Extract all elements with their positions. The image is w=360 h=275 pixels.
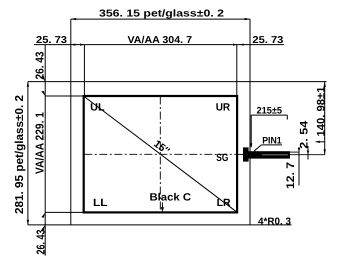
arrows: 281.95 dim line ends bbox=[27, 82, 29, 87]
outer glass bottom edge (with left ext and 4*R0.3 underline ext) bbox=[28, 224, 292, 226]
vertical centerline (dash-dot) bbox=[159, 97, 161, 212]
281.95 dimension line (left, vertical) bbox=[27, 82, 29, 225]
arrow on 2.54 tick bbox=[307, 151, 309, 155]
pin line upper bbox=[290, 151, 299, 153]
svg-text:2. 54: 2. 54 bbox=[299, 120, 311, 149]
svg-text:VA/AA 229. 1: VA/AA 229. 1 bbox=[34, 111, 46, 174]
svg-text:356. 15 pet/glass±0. 2: 356. 15 pet/glass±0. 2 bbox=[99, 9, 225, 20]
2.54 elbow leader bbox=[316, 141, 325, 143]
svg-text:140. 98±1: 140. 98±1 bbox=[315, 87, 327, 137]
svg-text:VA/AA 304. 7: VA/AA 304. 7 bbox=[128, 35, 193, 46]
svg-text:UL: UL bbox=[90, 101, 105, 113]
svg-text:281. 95 pet/glass±0. 2: 281. 95 pet/glass±0. 2 bbox=[14, 95, 26, 214]
connector tail (black bar) bbox=[248, 151, 290, 158]
svg-text:12. 7: 12. 7 bbox=[285, 162, 297, 189]
connector flange (black) bbox=[243, 147, 249, 161]
second dimension line 25.73 / VA 304.7 / 25.73 bbox=[34, 44, 284, 46]
VA bottom edge witness extension left bbox=[45, 211, 83, 213]
arrow on 12.7 tick bbox=[298, 148, 300, 152]
svg-text:25. 73: 25. 73 bbox=[36, 35, 67, 46]
diagonal line UL to LR bbox=[84, 97, 236, 212]
svg-text:LR: LR bbox=[217, 197, 231, 209]
top dimension line 356.15 bbox=[71, 18, 250, 20]
outer glass right edge (extends up to top dim line) bbox=[249, 19, 251, 225]
pin line lower / centerline extension right bbox=[290, 154, 325, 156]
VA left edge witness line up bbox=[83, 45, 85, 96]
horizontal centerline (dash-dot) bbox=[84, 153, 236, 155]
arrows: top dim line 356.15 ends bbox=[71, 18, 76, 20]
VA (viewing area) rectangle, thick border bbox=[84, 96, 237, 212]
white stripe inside tail bbox=[262, 154, 288, 156]
arrows: second dim line at outer/VA edges bbox=[71, 44, 75, 46]
outer glass top edge (with left+right extensions) bbox=[28, 81, 327, 83]
svg-text:UR: UR bbox=[216, 101, 231, 113]
Black C leader line with down arrow to VA bottom edge bbox=[161, 203, 163, 209]
svg-text:26. 43: 26. 43 bbox=[35, 52, 47, 80]
svg-text:25. 73: 25. 73 bbox=[252, 35, 283, 46]
VA right edge witness line up bbox=[236, 45, 238, 96]
svg-text:26. 43: 26. 43 bbox=[35, 230, 47, 255]
arrows: 26.43/229.1 junctions on x=45.2 line bbox=[41, 76, 45, 81]
VA/AA 229.1 + 26.43 dimension line (left, vertical) bbox=[44, 45, 46, 256]
svg-text:4*R0. 3: 4*R0. 3 bbox=[258, 216, 291, 227]
svg-text:SG: SG bbox=[216, 152, 228, 164]
outer glass left edge (extends up to top dim line) bbox=[70, 19, 72, 225]
140.98 dimension line (vertical right) bbox=[324, 82, 326, 155]
svg-text:LL: LL bbox=[93, 197, 108, 209]
svg-text:Black C: Black C bbox=[150, 192, 192, 204]
12.7 dim tick (vertical) bbox=[298, 147, 300, 186]
2.54 dim tick (vertical) bbox=[307, 146, 309, 160]
centerline through connector (VA edge to flange) bbox=[237, 153, 243, 155]
VA top edge witness extension left bbox=[45, 95, 83, 97]
